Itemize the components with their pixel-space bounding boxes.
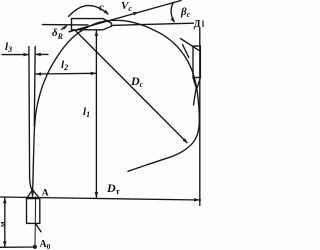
trajectory start arrowhead at A: [31, 192, 34, 197]
arrowhead on trajectory at rectangle: [80, 28, 85, 32]
A0 datum line: [0, 246, 35, 248]
projectile rectangle: [72, 19, 112, 30]
trajectory curve: [33, 20, 200, 196]
ground / D_t dimension line: [0, 197, 201, 200]
svg-text:м: м: [0, 221, 7, 227]
right tool hanger line 2: [183, 45, 189, 58]
Vc arrowhead: [133, 12, 139, 15]
axis / Vc tangent line: [69, 1, 181, 32]
right tool taper: [193, 78, 200, 90]
svg-text:Д: Д: [194, 19, 201, 30]
delta_R pointer arrow: [62, 26, 67, 30]
right vertical well line: [199, 28, 201, 206]
left tool tail line to A0: [34, 197, 37, 247]
Dc diameter line: [76, 31, 187, 143]
D_t right arrowhead: [194, 198, 200, 202]
right tool hanger line: [181, 39, 201, 52]
dimension m vertical line: [4, 198, 6, 247]
left tool diagonal stub: [36, 224, 41, 232]
svg-text:A: A: [42, 189, 49, 199]
m top arrowhead: [3, 198, 7, 204]
l3 dimension left part: [2, 54, 28, 56]
node A0 dot: [33, 245, 37, 249]
left tool body: [27, 199, 40, 224]
c rotation arc arrow: [69, 6, 108, 17]
right tool body: [193, 46, 200, 78]
horizontal line to D (right): [112, 23, 194, 25]
beta_c angle arc: [171, 3, 174, 22]
m bottom arrowhead: [3, 241, 7, 247]
l3 dimension right part: [36, 53, 48, 55]
l1 dimension line: [95, 30, 97, 197]
right well wall line: [33, 47, 36, 127]
left tool chevron: [27, 190, 40, 199]
l2 dimension line: [36, 72, 96, 75]
svg-text:c: c: [99, 2, 104, 14]
left well wall line: [29, 47, 32, 191]
left horizontal datum line: [43, 24, 89, 26]
right tool stub line: [194, 89, 196, 105]
